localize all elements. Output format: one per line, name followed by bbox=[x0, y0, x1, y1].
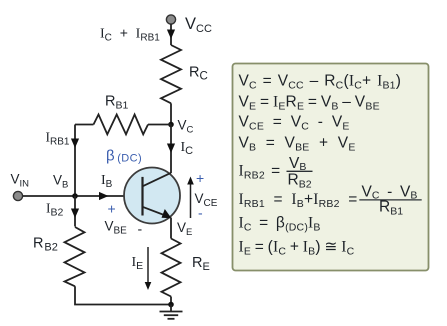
terminal VCC bbox=[166, 15, 175, 24]
svg-text:-: - bbox=[198, 205, 203, 221]
wire VCC to RC with current arrow bbox=[167, 24, 175, 45]
svg-text:VC = VCC – RC(IC+ IB1): VC = VCC – RC(IC+ IB1) bbox=[239, 73, 402, 92]
formula box bbox=[233, 64, 429, 271]
svg-text:IRB1: IRB1 bbox=[46, 130, 70, 148]
resistor RB1 bbox=[94, 115, 149, 135]
svg-text:β (DC): β (DC) bbox=[106, 148, 142, 165]
svg-text:VCC: VCC bbox=[185, 15, 212, 35]
svg-text:RB1: RB1 bbox=[105, 94, 128, 112]
wire emitter to RE bbox=[170, 218, 172, 239]
node VC bbox=[168, 122, 174, 128]
terminal VIN bbox=[13, 191, 22, 200]
node VB bbox=[72, 193, 78, 199]
ground bbox=[160, 305, 183, 319]
resistor RE bbox=[162, 239, 181, 297]
wire RB1 right lead to VC bbox=[148, 124, 171, 126]
svg-text:VE = IERE = VB – VBE: VE = IERE = VB – VBE bbox=[239, 94, 380, 113]
transistor emitter line with arrow bbox=[143, 207, 172, 218]
svg-text:RE: RE bbox=[192, 255, 210, 273]
svg-text:+: + bbox=[196, 170, 204, 186]
wire RC to VC node bbox=[170, 103, 172, 124]
wire left rail RB1 to VB with IRB1 arrow bbox=[71, 125, 79, 197]
wire RB1 left lead bbox=[75, 124, 94, 126]
wire RB2 bottom to ground rail bbox=[75, 286, 171, 304]
svg-text:IB2: IB2 bbox=[46, 201, 64, 219]
wire RE to ground node bbox=[170, 297, 172, 305]
resistor RB2 bbox=[65, 227, 85, 286]
svg-text:VE: VE bbox=[177, 220, 192, 238]
svg-text:VB: VB bbox=[53, 173, 68, 191]
svg-text:VIN: VIN bbox=[11, 172, 30, 190]
formula IRB1 bbox=[239, 184, 422, 218]
svg-text:VBE: VBE bbox=[105, 219, 128, 237]
svg-text:IB: IB bbox=[101, 173, 113, 190]
wire VIN to base with IB arrow bbox=[23, 192, 143, 200]
svg-text:IE = (IC + IB) ≅ IC: IE = (IC + IB) ≅ IC bbox=[239, 239, 355, 258]
svg-text:-: - bbox=[138, 221, 143, 237]
formula IRB2 bbox=[239, 155, 313, 191]
svg-text:IC: IC bbox=[181, 140, 194, 157]
wire VC to collector with IC arrow bbox=[167, 125, 175, 174]
transistor base bar bbox=[141, 177, 143, 216]
svg-text:RC: RC bbox=[189, 65, 208, 83]
resistor RC bbox=[161, 45, 181, 103]
node ground junction bbox=[168, 302, 174, 308]
svg-text:VC: VC bbox=[178, 118, 194, 136]
svg-text:IC + IRB1: IC + IRB1 bbox=[100, 25, 160, 44]
transistor Q1 body bbox=[124, 168, 180, 224]
svg-text:IE: IE bbox=[132, 255, 144, 272]
arrow VCE bbox=[187, 177, 194, 219]
wire RB2 to VB with IB2 arrow bbox=[71, 196, 79, 227]
svg-text:IC = β(DC)IB: IC = β(DC)IB bbox=[239, 215, 321, 234]
svg-text:+: + bbox=[108, 201, 116, 217]
arrow IE bbox=[145, 247, 152, 290]
svg-text:R B2: R B2 bbox=[33, 236, 58, 254]
transistor collector line bbox=[143, 173, 172, 187]
